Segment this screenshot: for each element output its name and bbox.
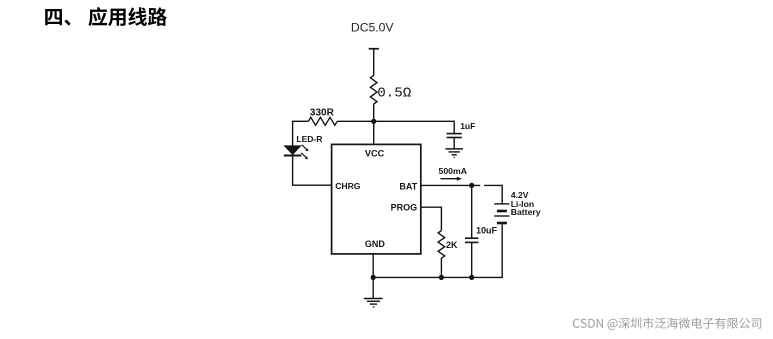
junction dot C2 bottom	[469, 275, 474, 280]
wire C2 bottom to rail	[471, 242, 473, 277]
wire LED cathode down and to CHRG	[293, 156, 332, 186]
svg-text:LED-R: LED-R	[296, 134, 322, 144]
svg-text:2K: 2K	[446, 240, 458, 250]
junction dot node VCC rail	[371, 119, 376, 124]
svg-text:CHRG: CHRG	[335, 181, 361, 191]
LED D1 cathode bar	[284, 155, 302, 157]
junction dot BAT node	[469, 183, 474, 188]
wire top rail left segment	[293, 120, 309, 122]
wire 2K bottom to rail	[440, 258, 442, 277]
resistor R3 2K zigzag	[438, 231, 445, 259]
wire GND pin down	[372, 254, 374, 278]
wire bottom rail	[373, 276, 503, 278]
svg-text:VCC: VCC	[365, 148, 385, 158]
current arrow 500mA	[441, 177, 462, 181]
junction dot 2K bottom	[439, 275, 444, 280]
wire BAT pin to battery rail	[421, 184, 480, 186]
svg-text:500mA: 500mA	[439, 166, 468, 176]
wire C1 to ground	[453, 138, 455, 149]
svg-text:330R: 330R	[310, 108, 335, 119]
svg-text:10uF: 10uF	[476, 226, 498, 236]
wire VCC node to chip	[373, 121, 375, 144]
wire battery rail down	[501, 185, 503, 204]
wire top rail corner down to LED	[292, 121, 294, 147]
wire terminal to R1	[373, 49, 375, 76]
ground symbol G2	[364, 299, 383, 307]
LED D1 triangle	[285, 146, 301, 155]
svg-text:0.5Ω: 0.5Ω	[377, 86, 412, 102]
title 四、应用线路	[45, 7, 167, 26]
wire GND node to ground	[372, 277, 374, 298]
wire R1 to node VCC	[373, 104, 375, 121]
LED light arrow 2	[301, 153, 308, 159]
wire BAT node down to C2	[471, 185, 473, 238]
battery BT1 plate long lower	[494, 215, 509, 217]
wire down to C1	[453, 121, 455, 134]
capacitor C2 10uF plates	[465, 237, 478, 239]
junction dot GND node	[371, 275, 376, 280]
LED light arrow 1	[302, 145, 309, 151]
wire top rail right segment	[337, 120, 454, 122]
battery BT1 plate short thick bottom	[497, 222, 507, 225]
op-chip U1 charger IC body	[332, 144, 421, 254]
ground symbol G1	[445, 149, 463, 157]
resistor R2 330R zigzag	[308, 117, 337, 125]
capacitor C1 1uF plates	[447, 133, 462, 135]
wire battery bottom down to rail	[501, 224, 503, 278]
svg-text:BAT: BAT	[399, 181, 417, 191]
battery BT1 plate long top	[494, 203, 509, 205]
svg-text:PROG: PROG	[391, 203, 418, 213]
svg-text:Battery: Battery	[511, 207, 541, 217]
wire PROG pin to 2K	[421, 207, 442, 230]
svg-text:DC5.0V: DC5.0V	[351, 20, 395, 34]
power terminal bar DC5.0V	[369, 48, 379, 50]
watermark CSDN @Shenzhen Fanhai Micro text	[573, 317, 761, 329]
resistor R1 0.5ohm zigzag	[370, 75, 377, 104]
svg-text:1uF: 1uF	[460, 121, 475, 131]
svg-text:GND: GND	[365, 239, 386, 249]
battery BT1 plate short thick	[497, 210, 507, 213]
